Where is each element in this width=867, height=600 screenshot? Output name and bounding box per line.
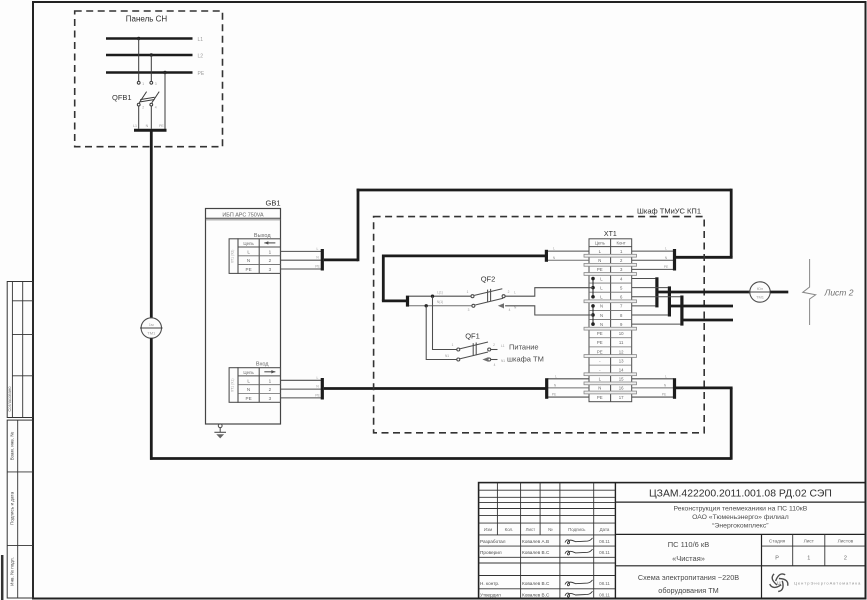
svg-text:Согласовано: Согласовано xyxy=(7,386,12,412)
svg-text:1: 1 xyxy=(452,343,454,347)
wire XT1-5 stub right xyxy=(632,287,668,289)
connector GB1 Выход (terminal table L/N/PE 1-3) xyxy=(229,233,280,274)
svg-text:L: L xyxy=(665,374,667,378)
svg-text:PE: PE xyxy=(597,349,603,354)
cable bundle bar QF feed xyxy=(406,296,409,307)
svg-text:08.11: 08.11 xyxy=(599,592,610,597)
svg-text:11: 11 xyxy=(619,340,624,345)
svg-text:Разработал: Разработал xyxy=(480,539,506,544)
svg-text:Утвердил: Утвердил xyxy=(480,592,501,597)
wire XT1-17 stub right xyxy=(632,396,674,398)
svg-text:оборудования ТМ: оборудования ТМ xyxy=(658,586,718,595)
cable bundle bar pair 5+8 xyxy=(668,286,671,316)
cable bundle bar XT1 15-17 left xyxy=(545,378,548,399)
svg-text:PE: PE xyxy=(597,267,603,272)
svg-text:2: 2 xyxy=(844,556,847,562)
svg-text:4: 4 xyxy=(494,363,496,367)
cable marker circle ТМ xyxy=(749,282,772,302)
wire PE bypass xyxy=(164,73,166,130)
svg-text:L2: L2 xyxy=(198,54,204,60)
svg-text:GB1: GB1 xyxy=(266,199,281,208)
svg-text:PE: PE xyxy=(597,340,603,345)
svg-text:L(1): L(1) xyxy=(437,290,443,294)
svg-text:“Энергокомплекс”: “Энергокомплекс” xyxy=(712,523,769,530)
UPS GB1 box xyxy=(206,209,281,425)
svg-text:ПС 110/6 кВ: ПС 110/6 кВ xyxy=(668,540,709,549)
jumper chain XT1 4-6 (L) xyxy=(591,277,595,299)
svg-text:Лист: Лист xyxy=(526,527,536,532)
cable bundle bar GB1 output xyxy=(315,247,322,271)
cable bundle bar (Панель СН output) xyxy=(133,124,167,130)
svg-text:N: N xyxy=(600,304,603,309)
cable marker circle ТМ1 xyxy=(140,318,163,338)
svg-text:N: N xyxy=(598,258,601,263)
svg-text:L1: L1 xyxy=(133,124,137,128)
svg-text:PE: PE xyxy=(159,124,164,128)
svg-text:L: L xyxy=(317,247,319,251)
svg-text:N: N xyxy=(600,313,603,318)
svg-text:17: 17 xyxy=(619,395,624,400)
svg-text:PE: PE xyxy=(315,265,320,269)
svg-text:ХТ1 (Х1): ХТ1 (Х1) xyxy=(231,379,235,393)
svg-text:Конт: Конт xyxy=(617,240,626,245)
svg-text:N: N xyxy=(247,258,250,263)
title block stage/sheet header xyxy=(769,538,854,561)
svg-text:1м: 1м xyxy=(149,322,154,327)
svg-text:Цепь: Цепь xyxy=(595,240,606,245)
svg-text:Лист: Лист xyxy=(804,538,815,544)
svg-text:PE: PE xyxy=(246,396,252,401)
svg-text:N1: N1 xyxy=(445,354,449,358)
svg-text:PE: PE xyxy=(315,393,320,397)
svg-text:Проверил: Проверил xyxy=(480,550,502,555)
svg-text:Подпись и дата: Подпись и дата xyxy=(10,492,15,525)
svg-text:PE: PE xyxy=(597,331,603,336)
svg-text:13: 13 xyxy=(619,358,624,363)
svg-text:ХТ1 (Х2): ХТ1 (Х2) xyxy=(231,250,235,264)
svg-text:PE: PE xyxy=(246,267,252,272)
wire XT1-1 stub left xyxy=(548,250,590,252)
wire QF feed L xyxy=(409,295,471,297)
svg-text:Р: Р xyxy=(775,556,779,562)
title block grid xyxy=(479,483,866,599)
node branch N to QF1 xyxy=(425,304,428,307)
svg-text:2: 2 xyxy=(269,258,272,263)
cable bundle bar XT1 1-2 left xyxy=(545,250,548,262)
svg-text:1: 1 xyxy=(142,82,144,86)
svg-text:2: 2 xyxy=(493,343,495,347)
svg-text:PE: PE xyxy=(597,395,603,400)
svg-text:12: 12 xyxy=(619,349,624,354)
side stamp column upper (Согласовано) xyxy=(7,282,33,418)
svg-text:Листов: Листов xyxy=(838,538,854,544)
jumper chain XT1 7-9 (N) xyxy=(591,304,595,326)
svg-text:3: 3 xyxy=(468,308,470,312)
wire XT1-15 stub right xyxy=(632,378,674,380)
svg-text:Кол.: Кол. xyxy=(505,527,514,532)
wire QF2 out N to XT1-8 xyxy=(505,306,593,315)
svg-text:PE: PE xyxy=(662,393,667,397)
wire GB1 output L xyxy=(281,250,322,252)
svg-text:Реконструкция телемеханики на: Реконструкция телемеханики на ПС 110кВ xyxy=(673,506,807,513)
svg-text:ТМ1: ТМ1 xyxy=(147,331,156,336)
svg-text:Ковалев А.В: Ковалев А.В xyxy=(522,539,549,544)
side stamp column lower (Взам.инв / Подпись и дата / Инв.№ подл) xyxy=(2,420,33,600)
circuit breaker QF2 (2-pole) xyxy=(467,289,517,312)
svg-text:Лист 2: Лист 2 xyxy=(824,288,854,298)
svg-text:4: 4 xyxy=(155,106,157,110)
svg-text:16: 16 xyxy=(619,386,624,391)
wire XT1-1 stub right xyxy=(632,250,674,252)
wire XT1-9 stub right xyxy=(632,323,681,325)
wire QF2 out L to XT1-5 xyxy=(505,288,593,297)
wire XT1-4 stub right xyxy=(632,278,656,280)
XT1 terminal bars xyxy=(584,254,637,394)
svg-text:ЦЗАМ.422200.2011.001.08 РД.02: ЦЗАМ.422200.2011.001.08 РД.02 СЭП xyxy=(649,488,832,499)
svg-text:«Чистая»: «Чистая» xyxy=(672,554,705,563)
svg-text:Панель СН: Панель СН xyxy=(126,15,168,24)
ground symbol xyxy=(214,424,226,439)
svg-text:Цепь: Цепь xyxy=(243,241,254,246)
wire bottom run xyxy=(150,457,731,460)
node tap L2 xyxy=(150,53,153,56)
wire XT1-2 stub left xyxy=(548,259,590,261)
wire XT1-7 stub right xyxy=(632,305,656,307)
svg-text:PE: PE xyxy=(198,71,205,77)
svg-text:L: L xyxy=(317,376,319,380)
wire GB1 output PE xyxy=(281,268,322,270)
enclosure Панель СН (dashed box) xyxy=(75,11,223,147)
svg-text:Стадия: Стадия xyxy=(769,538,786,544)
wire branch N down to QF1 xyxy=(426,306,457,360)
signature row Проверил xyxy=(480,549,610,555)
wire right riser (bottom to XT1 15-17) xyxy=(730,388,733,460)
svg-text:L1: L1 xyxy=(198,37,204,43)
svg-text:Дата: Дата xyxy=(600,527,610,532)
connector GB1 Вход (terminal table L/N/PE 1-3) xyxy=(229,362,280,403)
svg-text:ИБП APC 750VA: ИБП APC 750VA xyxy=(222,212,264,218)
svg-text:Питание: Питание xyxy=(509,343,539,352)
svg-text:PE: PE xyxy=(664,265,669,269)
wire QF feed N xyxy=(409,305,472,307)
svg-text:Ковалев В.С: Ковалев В.С xyxy=(522,592,550,597)
cable bundle bar pair 6+9 xyxy=(680,296,683,326)
cable bundle bar GB1 input xyxy=(315,376,322,400)
signature row Разработал xyxy=(480,538,610,544)
svg-text:QFB1: QFB1 xyxy=(112,93,132,102)
svg-text:N: N xyxy=(600,322,603,327)
svg-text:Ковалев В.С: Ковалев В.С xyxy=(522,550,550,555)
wire GB1 input N xyxy=(281,388,322,390)
wire XT1-6 stub right xyxy=(632,296,681,298)
svg-text:08.11: 08.11 xyxy=(599,550,610,555)
wire cable GB1-in to XT1 15-17 (thick run) xyxy=(324,387,546,390)
svg-text:L1: L1 xyxy=(501,344,505,348)
wire GB1 input PE xyxy=(281,397,322,399)
wire cable A to sheet 2 (thick) xyxy=(659,291,750,294)
terminal block XT1 table xyxy=(589,231,632,402)
svg-text:ЦентрЭнергоАвтоматика: ЦентрЭнергоАвтоматика xyxy=(794,581,861,586)
wire XT1-17 stub left xyxy=(548,396,590,398)
svg-text:10: 10 xyxy=(619,331,624,336)
enclosure Шкаф ТМиУС КП1 (dashed box) xyxy=(374,217,705,433)
svg-text:ОАО «Тюменьэнерго» филиал: ОАО «Тюменьэнерго» филиал xyxy=(692,514,789,521)
svg-text:QF2: QF2 xyxy=(481,275,496,284)
svg-text:Взам. инв. №: Взам. инв. № xyxy=(10,432,15,461)
svg-text:3: 3 xyxy=(155,82,157,86)
svg-text:Вход: Вход xyxy=(256,362,269,368)
svg-text:Цепь: Цепь xyxy=(243,370,254,375)
svg-text:1: 1 xyxy=(269,378,272,383)
svg-text:Подпись: Подпись xyxy=(568,527,586,532)
svg-text:№: № xyxy=(548,527,553,532)
svg-text:N(1): N(1) xyxy=(437,300,443,304)
signature row Н.контр xyxy=(480,580,610,586)
wire XT1-16 stub right xyxy=(632,387,674,389)
cable bundle bar XT1 1-3 right xyxy=(673,249,676,271)
wire cable XT1 15-17 to bottom run (thick) xyxy=(676,386,733,389)
wire XT1-2 stub right xyxy=(632,259,674,261)
svg-text:Изм: Изм xyxy=(484,527,492,532)
title block project description xyxy=(673,506,807,530)
wire XT1-15 stub left xyxy=(548,378,590,380)
svg-text:14: 14 xyxy=(619,367,624,372)
svg-text:N: N xyxy=(146,124,149,128)
svg-text:1: 1 xyxy=(467,290,469,294)
svg-text:2: 2 xyxy=(269,387,272,392)
node tap L1 xyxy=(137,37,140,40)
title block column labels xyxy=(484,527,610,532)
cable bundle bar pair 4+7 xyxy=(655,277,658,307)
svg-text:L: L xyxy=(247,249,250,254)
wire main feed to bottom run xyxy=(150,338,153,460)
svg-text:Инв. № подл.: Инв. № подл. xyxy=(10,557,15,586)
wire XT1-3 stub right xyxy=(632,268,674,270)
wire XT1-16 stub left xyxy=(548,387,590,389)
wire cable C (thick) xyxy=(683,319,733,322)
svg-text:QF1: QF1 xyxy=(465,332,480,341)
svg-text:3: 3 xyxy=(269,267,272,272)
svg-text:N1: N1 xyxy=(501,359,505,363)
svg-text:2: 2 xyxy=(142,106,144,110)
wire GB1 input L xyxy=(281,379,322,381)
wire GB1 output N xyxy=(281,259,322,261)
svg-text:Ковалев В.С: Ковалев В.С xyxy=(522,581,550,586)
svg-text:1: 1 xyxy=(269,249,272,254)
wire cable A continued xyxy=(770,291,788,294)
svg-text:шкафа ТМ: шкафа ТМ xyxy=(507,355,544,364)
svg-text:3: 3 xyxy=(269,396,272,401)
signature row Утвердил xyxy=(480,591,610,597)
svg-text:2: 2 xyxy=(508,290,510,294)
company logo xyxy=(770,574,862,592)
svg-text:08.11: 08.11 xyxy=(599,581,610,586)
svg-text:L: L xyxy=(514,290,516,294)
svg-text:L: L xyxy=(665,247,667,251)
svg-text:PE: PE xyxy=(552,393,557,397)
node tap PE xyxy=(163,71,166,74)
svg-text:Шкаф ТМиУС КП1: Шкаф ТМиУС КП1 xyxy=(637,207,701,216)
svg-text:Выход: Выход xyxy=(254,233,271,239)
wire cable B (thick) xyxy=(671,305,733,308)
svg-text:4: 4 xyxy=(509,308,511,312)
svg-text:L: L xyxy=(555,374,557,378)
circuit breaker QF1 (2-pole) xyxy=(445,342,505,367)
wire main feed down from QFB1 xyxy=(150,132,153,318)
svg-text:N: N xyxy=(598,386,601,391)
svg-text:L: L xyxy=(553,247,555,251)
svg-text:L: L xyxy=(247,378,250,383)
svg-text:N: N xyxy=(247,387,250,392)
wire cable GB1-out to XT1 (up-and-over thick run) xyxy=(324,189,733,262)
bus PE xyxy=(106,71,205,77)
svg-text:Ц: Ц xyxy=(777,580,781,585)
svg-text:08.11: 08.11 xyxy=(599,539,610,544)
bus L1 xyxy=(106,37,203,43)
bus L2 xyxy=(106,54,203,60)
node branch L to QF1 xyxy=(431,295,434,298)
svg-text:Юл: Юл xyxy=(757,286,764,291)
svg-text:1: 1 xyxy=(807,556,810,562)
wire cable XT1-left to QF feed (thick) xyxy=(382,255,548,301)
svg-text:ТМ1: ТМ1 xyxy=(756,295,765,300)
svg-text:Схема электропитания ~220В: Схема электропитания ~220В xyxy=(638,573,739,582)
circuit breaker QFB1 (2-pole) xyxy=(137,39,159,129)
svg-text:Н. контр.: Н. контр. xyxy=(480,581,499,586)
wire XT1-8 stub right xyxy=(632,314,668,316)
svg-text:ХТ1: ХТ1 xyxy=(604,231,617,238)
cable bundle bar XT1 15-17 right xyxy=(673,378,676,399)
svg-text:15: 15 xyxy=(619,377,624,382)
wire branch L down to QF1 xyxy=(433,296,457,349)
break symbol to sheet 2 xyxy=(803,259,816,325)
